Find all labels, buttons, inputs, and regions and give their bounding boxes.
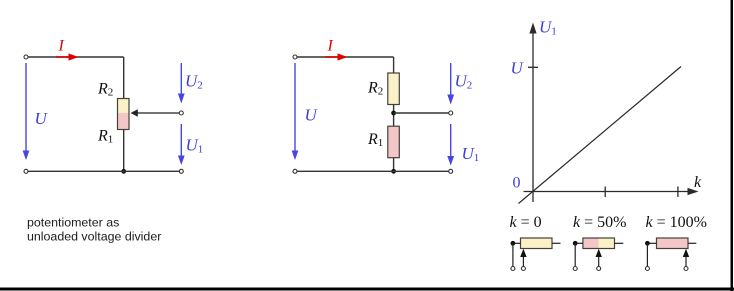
label U1 (graph y axis) — [539, 18, 557, 38]
pot symbol 2 left lead — [575, 242, 583, 244]
pot symbol 2 body pink half — [583, 238, 599, 249]
wire: between R2 and R1 — [393, 105, 395, 127]
junction dot (left circuit bottom) — [121, 169, 126, 174]
current arrow I (left circuit) — [56, 53, 79, 60]
wire: middle circuit vertical into R2 — [393, 57, 395, 74]
label I (left circuit) — [58, 38, 65, 55]
resistor R2 (middle circuit, cream) — [388, 73, 400, 105]
terminal: left circuit top-left — [24, 55, 28, 59]
pot symbol 1 right lead — [552, 242, 561, 244]
pot symbol 1 wiper terminal — [521, 267, 525, 271]
current arrow I (middle circuit) — [325, 53, 348, 60]
label k = 100% — [646, 214, 707, 231]
svg-text:I: I — [58, 38, 65, 55]
pot symbol 2 right lead — [615, 242, 624, 244]
label k = 50% — [573, 214, 626, 231]
frame: bottom bar — [0, 288, 734, 291]
pot symbol 3 wiper arrow (k=100% position) — [683, 249, 689, 267]
svg-text:R1: R1 — [97, 128, 113, 146]
voltage arrow U2 (middle circuit) — [447, 63, 454, 105]
label U1 (middle circuit) — [462, 144, 480, 164]
svg-text:U2: U2 — [455, 72, 473, 92]
svg-text:U1: U1 — [462, 144, 480, 164]
pot symbol 1 left terminal drop — [512, 243, 514, 266]
voltage arrow U1 (left circuit) — [178, 124, 185, 165]
terminal: left circuit bottom-left — [24, 169, 28, 173]
svg-text:U1: U1 — [186, 136, 204, 156]
label U2 (middle circuit) — [455, 72, 473, 92]
wire: middle circuit top — [297, 56, 393, 58]
svg-text:k = 0: k = 0 — [510, 214, 542, 231]
pot symbol 1 junction dot — [511, 241, 516, 246]
label 0 (graph origin) — [513, 175, 521, 192]
svg-text:k: k — [694, 174, 702, 191]
pot symbol 3 body (all pink) — [657, 238, 689, 249]
svg-text:k = 50%: k = 50% — [573, 214, 626, 231]
pot symbol 3 right lead — [688, 242, 696, 244]
wire: left circuit bottom — [28, 170, 179, 172]
voltage arrow U (middle circuit) — [292, 63, 299, 160]
svg-text:unloaded voltage divider: unloaded voltage divider — [27, 230, 161, 244]
caption: potentiometer as unloaded voltage divider — [27, 216, 161, 244]
pot symbol 2 wiper arrow (k=50% position) — [596, 249, 602, 267]
potentiometer body R1 lower (pink) — [118, 113, 130, 130]
pot symbol 2 body cream half — [599, 238, 615, 249]
wire: middle tap to right terminal — [394, 112, 449, 114]
tick U on y axis — [528, 66, 538, 68]
voltage arrow U1 (middle circuit) — [447, 124, 454, 166]
label R2 (left circuit) — [97, 81, 113, 99]
pot symbol 2 wiper terminal — [597, 267, 601, 271]
label U (graph) — [511, 59, 525, 78]
frame: right border — [731, 0, 734, 291]
label U1 (left circuit) — [186, 136, 204, 156]
pot symbol 1 left lead — [513, 242, 521, 244]
svg-text:U: U — [511, 59, 525, 78]
tick k=50% — [604, 187, 606, 198]
wire: middle circuit bottom — [297, 170, 448, 172]
wire: potentiometer to bottom — [123, 130, 125, 172]
label R1 (left circuit) — [97, 128, 113, 146]
label U2 (left circuit) — [185, 72, 203, 92]
pot symbol 1 body (all cream) — [521, 238, 553, 249]
pot symbol 3 junction dot — [645, 241, 650, 246]
terminal: middle circuit bottom-right — [449, 169, 453, 173]
junction dot (middle circuit mid) — [391, 111, 396, 116]
pot symbol 2 left terminal — [573, 267, 577, 271]
pot symbol 3 left lead — [647, 242, 656, 244]
wire: R1 to bottom — [393, 158, 395, 172]
pot symbol 2 outline — [583, 238, 615, 249]
resistor R1 (middle circuit, pink) — [388, 126, 400, 158]
wire: left circuit vertical into potentiometer — [123, 57, 125, 99]
label R1 (middle circuit) — [367, 131, 383, 149]
label R2 (middle circuit) — [367, 80, 383, 98]
wiper arrow (left circuit) — [131, 109, 180, 116]
tick k=100% — [677, 187, 679, 198]
potentiometer body R2 upper (cream) — [118, 99, 130, 114]
pot symbol 3 left terminal drop — [646, 243, 648, 266]
svg-text:potentiometer as: potentiometer as — [27, 216, 119, 230]
y axis U1 — [529, 23, 536, 203]
terminal: middle circuit bottom-left — [293, 169, 297, 173]
label U (left circuit) — [35, 109, 49, 128]
x axis k — [524, 188, 699, 195]
junction dot (middle circuit bottom) — [391, 169, 396, 174]
graph line U1 = kU — [519, 67, 682, 204]
svg-text:R2: R2 — [367, 80, 383, 98]
label k (graph x axis) — [694, 174, 702, 191]
svg-text:R2: R2 — [97, 81, 113, 99]
terminal: middle circuit tap — [449, 111, 453, 115]
pot symbol 2 junction dot — [573, 241, 578, 246]
pot symbol 1 left terminal — [511, 267, 515, 271]
label k = 0 — [510, 214, 542, 231]
svg-text:U: U — [35, 109, 49, 128]
terminal: wiper (left circuit) — [179, 111, 183, 115]
label U (middle circuit) — [305, 106, 319, 125]
svg-text:U: U — [305, 106, 319, 125]
pot symbol 3 wiper terminal — [684, 267, 688, 271]
svg-text:U1: U1 — [539, 18, 557, 38]
pot symbol 3 left terminal — [645, 267, 649, 271]
pot symbol 2 left terminal drop — [574, 243, 576, 266]
svg-text:I: I — [327, 38, 334, 55]
pot symbol 1 wiper arrow (k=0 position) — [520, 249, 526, 267]
terminal: left circuit bottom-right — [179, 169, 183, 173]
svg-text:R1: R1 — [367, 131, 383, 149]
wire: left circuit top — [28, 56, 123, 58]
terminal: middle circuit top-left — [293, 55, 297, 59]
potentiometer outline — [118, 99, 130, 130]
label I (middle circuit) — [327, 38, 334, 55]
svg-text:U2: U2 — [185, 72, 203, 92]
voltage arrow U (left circuit) — [23, 63, 30, 160]
svg-text:0: 0 — [513, 175, 521, 192]
svg-text:k = 100%: k = 100% — [646, 214, 707, 231]
voltage arrow U2 (left circuit) — [178, 63, 185, 104]
